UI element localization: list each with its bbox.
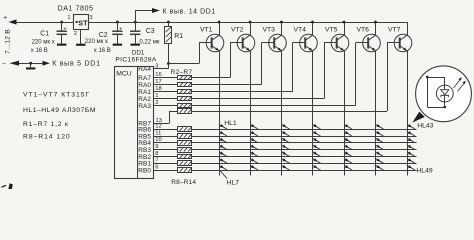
pin number 13: [156, 118, 162, 124]
LED HL21: [282, 165, 290, 170]
LED HL30: [344, 131, 352, 136]
wire R1 to RA4 node: [168, 44, 170, 64]
wire R5 to VT5 base: [192, 43, 325, 99]
node VT3 collector on rail: [280, 21, 283, 24]
svg-text:C2: C2: [99, 32, 108, 39]
ground under DA1 pin 2: [76, 44, 85, 46]
pin number 12: [155, 123, 161, 129]
value C2 x 16 V: [94, 48, 111, 54]
wire rail to R1: [168, 22, 170, 27]
LED HL49: [407, 165, 415, 170]
label R2-R7: [171, 69, 193, 76]
LED HL24: [313, 138, 321, 143]
wire + input rail: [17, 22, 74, 24]
value C1 x 16 V: [31, 48, 48, 54]
wire matrix row 6: [192, 163, 417, 165]
LED HL40: [376, 151, 384, 156]
svg-text:VT1: VT1: [200, 27, 213, 34]
svg-text:PIC16F628A: PIC16F628A: [115, 57, 157, 64]
value C2 220 mk: [85, 39, 108, 45]
label HL7: [227, 179, 240, 186]
mcu DD1 box: [115, 66, 154, 179]
value C1 220 mk: [32, 40, 55, 46]
label HL49: [416, 167, 432, 174]
svg-text:ST: ST: [78, 18, 88, 27]
LED HL26: [313, 151, 321, 156]
bubble LED body circle: [436, 85, 453, 102]
transistor VT5: [324, 22, 349, 52]
label VT7: [388, 27, 401, 34]
svg-text:RA4: RA4: [138, 66, 151, 73]
pin number 11: [155, 130, 161, 136]
resistor R3: [178, 83, 192, 87]
pin label RB1: [138, 161, 151, 168]
wire pin 17 to R3: [153, 84, 177, 86]
svg-text:VT5: VT5: [325, 27, 338, 34]
node C2 top: [116, 21, 119, 24]
detail bubble circle: [416, 66, 472, 122]
transistor VT3: [262, 22, 287, 52]
node C3 / K vyv.14 stub: [134, 21, 137, 24]
LED HL31: [344, 138, 352, 143]
wire pin 12 to R8: [153, 129, 177, 131]
resistor R14: [178, 168, 192, 173]
wire matrix row 4: [192, 149, 417, 151]
resistor R10: [178, 141, 192, 146]
pin number 8: [155, 151, 158, 157]
label VT6: [357, 27, 370, 34]
note R1-R7 1.2k: [23, 121, 69, 128]
pin number 10: [155, 137, 161, 143]
label VT2: [231, 27, 244, 34]
svg-text:HL1: HL1: [224, 120, 237, 127]
wire matrix row 1: [192, 129, 417, 131]
LED HL15: [282, 124, 290, 129]
input - terminal arrow: [2, 60, 19, 67]
pin label RB4: [138, 140, 151, 147]
wire pin 9 to R11: [153, 149, 177, 151]
LED HL34: [344, 158, 352, 163]
LED HL47: [407, 151, 415, 156]
resistor R1: [165, 27, 172, 44]
ground on - line: [26, 67, 35, 69]
pin number 2: [155, 100, 158, 106]
svg-text:RB0: RB0: [138, 167, 151, 174]
label MCU: [116, 71, 132, 78]
bubble node top: [426, 76, 429, 79]
wire matrix row 3: [192, 142, 417, 144]
node VT2 collector on rail: [249, 21, 252, 24]
LED HL44: [407, 131, 415, 136]
pin label RB3: [138, 147, 151, 154]
pin number 9: [155, 144, 158, 150]
LED HL42: [376, 165, 384, 170]
svg-text:х 16 В: х 16 В: [31, 48, 48, 54]
LED HL22: [313, 124, 321, 129]
bubble LED lead top: [444, 77, 446, 85]
wire RB7 pin13 jog: [153, 111, 177, 124]
LED HL6: [219, 158, 227, 163]
wire VT4 emitter column: [312, 51, 314, 176]
wire pin 6 to R14: [153, 170, 177, 172]
wire pin 10 to R10: [153, 142, 177, 144]
voltage regulator DA1 7805 box: [74, 15, 89, 30]
label C1: [40, 30, 49, 37]
svg-text:К выв. 14 DD1: К выв. 14 DD1: [163, 8, 216, 15]
pin label RA3: [138, 103, 151, 110]
wire - input line: [19, 63, 43, 65]
LED HL9: [250, 131, 258, 136]
wire R2 to VT2 base: [192, 43, 231, 78]
pin label RB6: [138, 126, 151, 133]
svg-text:MCU: MCU: [116, 71, 132, 78]
node R1 top: [167, 21, 170, 24]
LED HL3: [219, 138, 227, 143]
note R8-R14 120: [23, 134, 71, 141]
LED HL10: [250, 138, 258, 143]
wire pin 18 to R4: [153, 91, 177, 93]
label DD1: [132, 49, 145, 56]
svg-text:RB6: RB6: [138, 126, 151, 133]
wire VT2 emitter column: [250, 51, 252, 176]
label VT4: [294, 27, 307, 34]
pin label RB7: [138, 121, 151, 128]
LED HL8: [250, 124, 258, 129]
bubble node bottom: [444, 106, 447, 109]
wire pin 11 to R9: [153, 136, 177, 138]
capacitor C3: [130, 22, 140, 46]
LED HL32: [344, 145, 352, 150]
node ground tap on - line: [29, 62, 32, 65]
svg-text:6: 6: [155, 164, 158, 170]
LED HL13: [250, 158, 258, 163]
svg-text:220 мк х: 220 мк х: [85, 39, 108, 45]
pin number 3: [155, 63, 158, 69]
svg-text:R1–R7 1,2 к: R1–R7 1,2 к: [23, 121, 69, 128]
wire pin 16 to R2: [153, 77, 177, 79]
svg-text:VT7: VT7: [388, 27, 401, 34]
label DA1 7805: [58, 4, 94, 13]
arrow to K vyv. 14 DD1: [152, 8, 160, 13]
label K vyv 5 DD1: [52, 61, 101, 68]
wire DA1 pin2 to ground: [80, 30, 82, 44]
svg-text:VT1–VT7 КТ315Г: VT1–VT7 КТ315Г: [23, 92, 90, 99]
svg-text:R1: R1: [174, 33, 183, 40]
LED HL28: [313, 165, 321, 170]
svg-text:R8–R14: R8–R14: [171, 179, 196, 186]
node VT6 collector on rail: [374, 21, 377, 24]
svg-text:х 16 В: х 16 В: [94, 48, 111, 54]
svg-text:11: 11: [155, 130, 161, 136]
note VT1-VT7 KT315G: [23, 92, 90, 99]
LED HL41: [376, 158, 384, 163]
svg-text:HL7: HL7: [227, 179, 240, 186]
wire R4 to VT4 base: [192, 43, 293, 92]
svg-text:HL43: HL43: [417, 123, 433, 130]
LED HL5: [219, 151, 227, 156]
wire VT5 emitter column: [344, 51, 346, 176]
pin number 6: [155, 164, 158, 170]
pointer wedge to HL43: [412, 112, 425, 123]
wire VT1 emitter column: [219, 51, 221, 176]
LED HL46: [407, 145, 415, 150]
LED HL33: [344, 151, 352, 156]
LED HL19: [282, 151, 290, 156]
svg-text:2: 2: [74, 31, 77, 37]
pin label RB0: [138, 167, 151, 174]
wire pin 1 to R5: [153, 98, 177, 100]
svg-text:1: 1: [67, 15, 70, 21]
label VT5: [325, 27, 338, 34]
pin label RA2: [138, 96, 151, 103]
arrow to K vyv. 5 DD1: [43, 61, 50, 66]
node VT1 collector on rail: [218, 21, 221, 24]
label C2: [99, 32, 108, 39]
svg-text:−: −: [2, 60, 6, 67]
svg-text:7...12 В: 7...12 В: [4, 29, 11, 54]
wire matrix row 2: [192, 136, 417, 138]
svg-text:+: +: [3, 15, 7, 22]
pin 2 of DA1: [74, 31, 77, 37]
LED HL38: [376, 138, 384, 143]
svg-text:VT6: VT6: [357, 27, 370, 34]
LED HL37: [376, 131, 384, 136]
label R1: [174, 33, 183, 40]
capacitor C1: [57, 22, 68, 46]
LED HL20: [282, 158, 290, 163]
leader line HL7: [220, 170, 228, 179]
LED HL29: [344, 124, 352, 129]
wire R6 to VT6 base: [192, 43, 356, 106]
LED HL27: [313, 158, 321, 163]
bubble bottom wire: [427, 107, 445, 109]
pin label RB5: [138, 133, 151, 140]
value C3 0.22 mk: [139, 39, 159, 45]
pin number 18: [155, 86, 161, 92]
LED HL7: [219, 165, 227, 170]
pin label RA0: [138, 82, 151, 89]
svg-text:HL49: HL49: [416, 167, 432, 174]
bubble light emission arrows: [454, 77, 466, 91]
svg-text:0,22 мк: 0,22 мк: [139, 39, 159, 45]
svg-text:VT3: VT3: [263, 27, 276, 34]
input + terminal arrow: [3, 15, 16, 25]
svg-text:HL1–HL49 АЛ307БМ: HL1–HL49 АЛ307БМ: [23, 107, 96, 114]
LED HL18: [282, 145, 290, 150]
label K vyv. 14 DD1: [163, 8, 216, 15]
LED HL11: [250, 145, 258, 150]
svg-text:DD1: DD1: [132, 49, 145, 56]
svg-text:C1: C1: [40, 30, 49, 37]
bubble LED symbol: [441, 85, 449, 107]
pin label RA7: [138, 75, 151, 82]
pin label RA1: [138, 89, 151, 96]
resistor R4: [178, 90, 192, 94]
label VT3: [263, 27, 276, 34]
capacitor C2: [112, 22, 123, 46]
pin 1 of DA1: [67, 15, 70, 21]
wire VT3 emitter column: [281, 51, 283, 176]
label HL1: [224, 120, 237, 127]
transistor VT6: [356, 22, 381, 52]
svg-text:8: 8: [155, 151, 158, 157]
LED HL17: [282, 138, 290, 143]
wire to ground symbol: [30, 63, 32, 67]
LED HL48: [407, 158, 415, 163]
node C1 top: [60, 21, 63, 24]
svg-text:RA0: RA0: [138, 82, 151, 89]
label PIC16F628A: [115, 57, 157, 64]
wire RA4 node to VT1 base: [168, 43, 199, 64]
svg-text:RA1: RA1: [138, 89, 151, 96]
wire matrix row 5: [192, 156, 417, 158]
LED HL23: [313, 131, 321, 136]
label VT1: [200, 27, 213, 34]
svg-text:R8–R14 120: R8–R14 120: [23, 134, 71, 141]
svg-text:R2–R7: R2–R7: [171, 69, 193, 76]
LED HL43: [407, 124, 415, 129]
pin label RA4: [138, 66, 151, 73]
LED HL35: [344, 165, 352, 170]
svg-text:RA3: RA3: [138, 103, 151, 110]
transistor VT4: [293, 22, 318, 52]
svg-text:+: +: [63, 27, 67, 33]
svg-text:RA7: RA7: [138, 75, 151, 82]
svg-text:RA2: RA2: [138, 96, 151, 103]
wire VT6 emitter column: [375, 51, 377, 176]
wire RA4 pin3 stub: [153, 64, 169, 69]
resistor R5: [178, 97, 192, 101]
label R8-R14: [171, 179, 196, 186]
resistor R13: [178, 161, 192, 166]
svg-text:12: 12: [155, 123, 161, 129]
page corner mark: [2, 183, 13, 189]
note HL1-HL49 AL307BM: [23, 107, 96, 114]
svg-text:К выв 5 DD1: К выв 5 DD1: [52, 61, 101, 68]
resistor R11: [178, 148, 192, 153]
svg-text:C3: C3: [146, 28, 155, 35]
LED HL45: [407, 138, 415, 143]
resistor R8: [178, 127, 192, 132]
wire R3 to VT3 base: [192, 43, 262, 85]
label C3: [146, 28, 155, 35]
svg-text:220 мк х: 220 мк х: [32, 40, 55, 46]
wire pin 2 to R6: [153, 105, 177, 107]
wire stub up to K vyv.14 arrow: [135, 11, 152, 23]
transistor VT2: [230, 22, 255, 52]
pin number 17: [155, 79, 161, 85]
LED HL25: [313, 145, 321, 150]
resistor R6: [178, 104, 192, 108]
svg-text:3: 3: [89, 15, 92, 21]
transistor VT1: [199, 22, 224, 52]
node VT4 collector on rail: [311, 21, 314, 24]
wire matrix row 7: [192, 170, 417, 172]
label 7...12 V input voltage: [4, 29, 11, 54]
node RA4/R1 junction: [167, 62, 170, 65]
LED HL12: [250, 151, 258, 156]
svg-text:DA1 7805: DA1 7805: [58, 4, 94, 13]
LED HL4: [219, 145, 227, 150]
resistor R7: [178, 109, 192, 114]
wire R7 to VT7 base: [192, 43, 388, 112]
label HL43: [417, 123, 433, 130]
pin number 7: [155, 158, 158, 164]
wire +5V rail from DA1 pin3 to VT7 collector: [89, 22, 407, 24]
LED HL2: [219, 131, 227, 136]
LED HL36: [376, 124, 384, 129]
wire VT7 emitter column: [407, 51, 409, 176]
LED HL14: [250, 165, 258, 170]
LED HL16: [282, 131, 290, 136]
LED HL39: [376, 145, 384, 150]
svg-text:7: 7: [155, 158, 158, 164]
svg-text:VT2: VT2: [231, 27, 244, 34]
bubble top wire: [427, 77, 445, 79]
bubble column wire: [427, 77, 429, 107]
LED HL1: [219, 124, 227, 129]
resistor R9: [178, 134, 192, 139]
svg-text:VT4: VT4: [294, 27, 307, 34]
transistor VT7: [387, 22, 412, 52]
node VT5 collector on rail: [343, 21, 346, 24]
wire pin 8 to R12: [153, 156, 177, 158]
wire pin 7 to R13: [153, 163, 177, 165]
pin number 1: [155, 93, 158, 99]
pin number 16: [155, 72, 161, 78]
resistor R2: [178, 76, 192, 80]
resistor R12: [178, 155, 192, 159]
pin 3 of DA1: [89, 15, 92, 21]
pin label RB2: [138, 154, 151, 161]
